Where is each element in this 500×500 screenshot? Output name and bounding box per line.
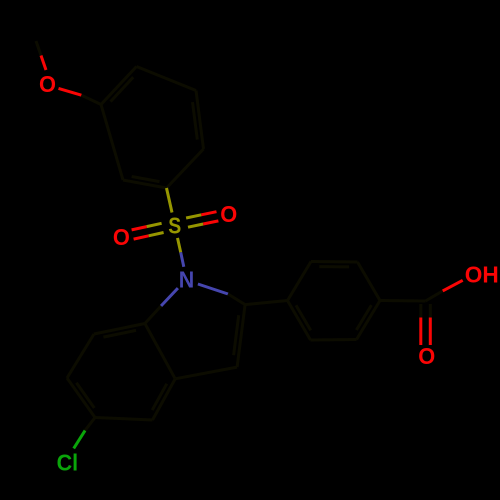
- bond phenylene inner double 1: [319, 265, 349, 268]
- svg-text:S: S: [168, 213, 181, 239]
- bond C3a-C4: [153, 379, 176, 420]
- bond S=O left line b: [134, 233, 164, 240]
- bond N-C7a blue half: [161, 288, 178, 306]
- bond C2-phenylene: [245, 301, 287, 305]
- bond CH3-O red half: [41, 56, 46, 71]
- bond N-C7a dark half: [145, 306, 161, 324]
- bond ring1 edge 1: [101, 105, 123, 181]
- svg-text:Cl: Cl: [57, 449, 79, 475]
- svg-text:O: O: [113, 224, 130, 250]
- bond phenylene edge 3: [357, 301, 381, 340]
- bond C4-C5: [95, 418, 153, 421]
- bond phenylene edge 1: [311, 260, 358, 264]
- bond C5-C6: [67, 378, 95, 418]
- bond phenylene edge 4: [311, 338, 357, 342]
- bond ring1 inner double 4: [193, 102, 198, 139]
- bond ring1 inner double 0: [132, 177, 160, 182]
- bond S=O right line b: [186, 212, 216, 218]
- bond O-ring red half: [59, 88, 82, 95]
- bond C2-C3: [237, 305, 245, 368]
- bond C3a=C4 inner double: [152, 384, 167, 410]
- bond N-C2 dark half: [228, 294, 245, 305]
- svg-text:N: N: [179, 266, 195, 292]
- bond CH3-O dark half: [36, 41, 41, 56]
- bond ring1 edge 3: [137, 67, 197, 91]
- bond S=O right line a: [188, 221, 218, 227]
- bond C6-C7: [67, 334, 94, 378]
- bond phenylene edge 5: [288, 301, 311, 341]
- bond O-ring dark half: [81, 95, 101, 104]
- svg-text:O: O: [418, 343, 435, 369]
- bond ring1 inner double 2: [111, 77, 134, 101]
- bond phenylene edge 0: [288, 262, 312, 301]
- bond C-OH dark half: [426, 291, 443, 301]
- bond C2=C3 inner double: [234, 315, 239, 355]
- bond phenylene inner double 3: [356, 305, 371, 330]
- bond ring1 edge 5: [167, 149, 204, 188]
- bond phenylene-COOH: [380, 299, 426, 303]
- bond N-C2 blue half: [198, 284, 228, 294]
- svg-text:OH: OH: [465, 262, 499, 288]
- bond C7-C7a: [94, 324, 145, 335]
- bond phenylene inner double 5: [296, 305, 311, 330]
- bond C5=C6 inner double: [76, 383, 94, 408]
- bond S=O left line a: [132, 223, 162, 230]
- bond C-OH red half: [443, 280, 463, 291]
- bond Cl-C5 dark part: [85, 418, 95, 431]
- bond S-ring olive: [167, 188, 173, 213]
- bond phenylene edge 2: [358, 262, 381, 301]
- bond C=O line a: [419, 304, 422, 345]
- bond ring1 edge 4: [196, 91, 204, 150]
- bond C3-C3a: [175, 367, 237, 379]
- bond C3a-C7a: [145, 324, 175, 379]
- bond S-N: [178, 238, 184, 267]
- bond ring1 edge 0: [123, 180, 167, 188]
- bond C=O line b: [429, 304, 432, 345]
- svg-text:O: O: [220, 201, 237, 227]
- bond C7=C7a inner double: [103, 330, 136, 337]
- bond ring1 edge 2: [101, 67, 137, 105]
- bond Cl-C5 green part: [74, 430, 85, 448]
- svg-text:O: O: [39, 71, 56, 97]
